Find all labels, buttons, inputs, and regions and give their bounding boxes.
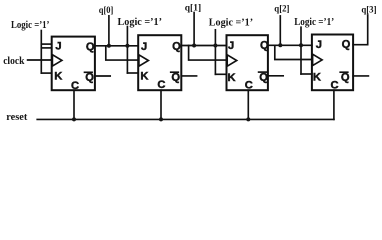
- wire Q3 to clock4 jog: [275, 45, 312, 59]
- wire K1 rung: [41, 72, 51, 74]
- wire J1 upper rung: [41, 43, 51, 45]
- junction q[2] dot: [278, 43, 282, 47]
- junction J3 tie dot: [213, 44, 217, 48]
- junction q[1] dot: [192, 44, 196, 48]
- node Logic-1 vertical wire (stage 2): [126, 27, 128, 74]
- svg-text:Q: Q: [86, 41, 95, 53]
- svg-text:K: K: [228, 72, 236, 84]
- svg-text:K: K: [313, 71, 321, 83]
- wire K2 rung: [127, 72, 138, 74]
- svg-text:q[3]: q[3]: [361, 4, 376, 14]
- junction J2 tie dot: [125, 44, 129, 48]
- JK flip-flop U2 body: [138, 35, 181, 91]
- wire net q[2]: Q3 output to J4: [268, 44, 312, 46]
- svg-text:J: J: [55, 41, 61, 53]
- wire Q1-bar stub: [95, 75, 110, 77]
- JK flip-flop U4 body: [312, 35, 353, 92]
- svg-text:Q: Q: [341, 72, 350, 84]
- wire Q3-bar stub: [268, 75, 283, 77]
- wire q[1] stub: [193, 13, 195, 46]
- node Logic-1 vertical wire (stage 4): [300, 27, 302, 74]
- wire C2 reset drop: [160, 90, 162, 119]
- wire Q4-bar stub: [353, 75, 368, 77]
- junction J4 tie dot: [299, 43, 303, 47]
- svg-text:Logic =’1’: Logic =’1’: [118, 17, 163, 28]
- wire J1 lower rung: [41, 47, 51, 49]
- wire Q2-bar stub: [181, 75, 196, 77]
- wire clock input: [28, 59, 52, 61]
- wire reset rail: [37, 118, 334, 120]
- svg-text:Q: Q: [259, 71, 268, 83]
- wire q[0] stub: [108, 16, 110, 46]
- node Logic-1 vertical wire (stage 3): [214, 30, 216, 75]
- svg-text:q[2]: q[2]: [274, 4, 289, 14]
- svg-text:C: C: [71, 80, 79, 92]
- wire K3 rung: [215, 73, 226, 75]
- svg-text:J: J: [228, 40, 234, 52]
- wire net q[3]: Q4 output up to label: [353, 15, 368, 45]
- svg-text:Logic =’1’: Logic =’1’: [209, 17, 253, 28]
- wire net q[0]: Q1 output to J2: [95, 45, 138, 47]
- junction reset-C1 dot: [72, 117, 76, 121]
- JK flip-flop U3 body: [227, 35, 270, 91]
- svg-text:Q: Q: [171, 72, 180, 84]
- wire C1 reset drop: [73, 90, 75, 119]
- wire q[2] stub: [279, 16, 281, 45]
- junction q[0] dot: [107, 44, 111, 48]
- wire K4 rung: [301, 73, 312, 75]
- svg-text:J: J: [141, 41, 147, 53]
- svg-text:q[1]: q[1]: [185, 3, 201, 13]
- svg-text:J: J: [316, 39, 322, 51]
- junction reset-C3 dot: [246, 117, 250, 121]
- wire net q[1]: Q2 output to J3: [181, 45, 226, 47]
- wire Q2 to clock3 jog: [189, 46, 227, 61]
- JK flip-flop U1 body: [52, 37, 95, 92]
- svg-text:Q: Q: [172, 40, 181, 52]
- wire C3 reset drop: [247, 90, 249, 119]
- junction reset-C2 dot: [159, 117, 163, 121]
- clock edge triangle U4: [313, 54, 323, 65]
- svg-text:Q: Q: [342, 39, 351, 51]
- clock edge triangle U1: [52, 55, 62, 66]
- clock edge triangle U2: [139, 55, 149, 66]
- svg-text:K: K: [54, 71, 62, 83]
- wire C4 reset drop: [333, 90, 335, 119]
- svg-text:K: K: [140, 71, 148, 83]
- wire Q1 to clock2 jog: [106, 46, 138, 60]
- svg-text:Logic =’1’: Logic =’1’: [11, 20, 50, 31]
- svg-text:reset: reset: [6, 112, 28, 123]
- clock edge triangle U3: [227, 55, 237, 66]
- node Logic-1 vertical wire (stage 1): [40, 31, 42, 74]
- svg-text:Q: Q: [85, 72, 94, 84]
- svg-text:clock: clock: [3, 56, 25, 67]
- svg-text:q[0]: q[0]: [99, 5, 114, 15]
